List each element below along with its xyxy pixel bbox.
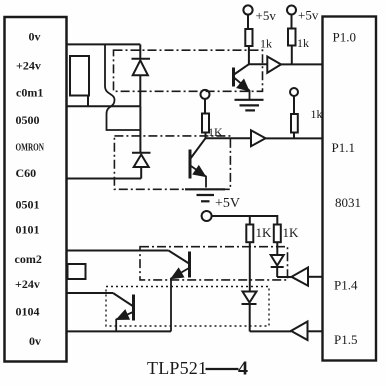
wire resistor to node and buffer 2 [206, 133, 252, 139]
wire circle 3 to resistor [204, 99, 206, 114]
optocoupler 1 dash-dot box [114, 50, 263, 91]
inverter U4 (P1.5) [291, 322, 308, 341]
svg-text:P1.0: P1.0 [333, 30, 356, 45]
svg-text:1K: 1K [256, 225, 273, 240]
transistor Q4 (opto 4 output) [113, 293, 134, 331]
wire circle 4 to resistor [293, 96, 295, 114]
resistor 1K (opto 2 collector pull-up) [202, 114, 209, 133]
diode C (opto 4 input LED) [242, 292, 257, 332]
svg-text:1K: 1K [283, 225, 300, 240]
resistor 1k (pull-up at P1.0 line) [288, 29, 296, 46]
wire resistor 2 down to P1.0 wire [291, 46, 293, 65]
wire from +5v circle 1 [247, 15, 249, 29]
svg-text:0501: 0501 [16, 198, 40, 212]
wire com2 row horizontal [66, 250, 169, 252]
wire inverter 1 to P1.4 [308, 276, 322, 278]
svg-text:OMRON: OMRON [16, 142, 45, 154]
wire resistor 4 down to P1.1 wire [293, 133, 295, 139]
wire diode C to inverter 2 [250, 330, 291, 332]
svg-text:1K: 1K [208, 125, 223, 139]
left terminal box (PLC) [5, 17, 67, 362]
svg-text:com2: com2 [15, 252, 42, 266]
wire squiggle crossover from 0v [105, 44, 140, 130]
svg-text:1k: 1k [297, 36, 309, 50]
svg-text:TLP521: TLP521 [147, 358, 207, 378]
svg-text:0101: 0101 [16, 223, 40, 237]
svg-text:+5v: +5v [298, 8, 319, 23]
+5v terminal circle 1 [243, 5, 252, 14]
wire diode D to inverter 1 [277, 276, 292, 278]
svg-text:0v: 0v [29, 30, 41, 44]
inverter U3 (P1.4) [292, 268, 309, 286]
transistor Q2 (opto 2 output) [190, 138, 206, 187]
svg-text:4: 4 [238, 358, 248, 380]
svg-text:P1.1: P1.1 [332, 140, 355, 155]
svg-text:0104: 0104 [16, 305, 40, 319]
wire +24v row horizontal [66, 292, 113, 294]
stub to resistor A [249, 216, 251, 225]
wire buffer 2 to P1.1 [266, 137, 323, 139]
wire buffer to P1.0 [281, 63, 322, 65]
svg-text:C60: C60 [16, 166, 37, 180]
+5v terminal circle 4 (P1.1 pull-up) [290, 88, 298, 96]
coil rectangle upper [70, 56, 89, 96]
buffer U2 to P1.1 [251, 130, 266, 146]
resistor 1k (pull-up P1.0 opto side) [245, 29, 252, 46]
wire node vertical between LED1 and LED2 [139, 106, 141, 153]
svg-text:1k: 1k [311, 107, 323, 121]
svg-text:+24v: +24v [16, 59, 41, 73]
svg-text:P1.4: P1.4 [334, 278, 358, 293]
svg-text:P1.5: P1.5 [334, 332, 357, 347]
wire 0v bottom row horizontal [66, 330, 171, 332]
resistor 1k (pull-up P1.1) [291, 114, 298, 133]
coil rectangle lower [68, 264, 86, 279]
svg-text:1k: 1k [260, 37, 272, 51]
wire resistor to collector node [249, 46, 267, 64]
svg-text:8031: 8031 [335, 195, 361, 210]
resistor 1K (A, P1.5 branch) [246, 225, 253, 243]
+5v terminal circle 5 [202, 211, 212, 221]
caption long dash [206, 368, 239, 370]
wire c0m1 row horizontal [66, 105, 141, 107]
wire +5V rail bottom [212, 216, 278, 225]
svg-text:+24v: +24v [15, 277, 40, 291]
diode LED1 (optocoupler 1 input) [132, 59, 151, 107]
svg-text:c0m1: c0m1 [16, 86, 43, 100]
optocoupler 2 dash-dot box [114, 136, 230, 189]
diode LED2 (optocoupler 2 input) [132, 153, 151, 179]
wire resistor A down to diode C [249, 242, 251, 291]
ground under Q1 [235, 100, 264, 111]
buffer U1 to P1.0 [267, 57, 281, 73]
transistor Q1 (opto 1 output) [234, 64, 250, 99]
svg-text:+5v: +5v [256, 8, 277, 23]
wire 0v row horizontal [66, 43, 140, 45]
svg-text:0v: 0v [29, 334, 41, 348]
ground under Q2 [185, 189, 225, 201]
diode D (opto 3 input LED) [271, 255, 284, 277]
+5v terminal circle 2 [287, 6, 296, 15]
wire inverter 2 to P1.5 [308, 330, 323, 332]
wire from +5v circle 2 [291, 15, 293, 29]
wire resistor B down to diode D [276, 242, 278, 255]
+5v terminal circle 3 (above R2) [201, 90, 210, 99]
svg-text:+5V: +5V [215, 196, 240, 211]
optocoupler 4 dotted box [106, 287, 269, 327]
wire C60 row horizontal [66, 178, 141, 180]
optocoupler 3 dash-dot box [140, 247, 288, 280]
transistor Q3 (opto 3 output) [169, 251, 190, 332]
resistor 1K (B, P1.4 branch) [274, 225, 281, 243]
svg-text:0500: 0500 [16, 113, 40, 127]
right box (8031 MCU) [323, 17, 377, 361]
stub coil to c0m1 wire [87, 96, 89, 107]
wire 0v drop to LED1 cathode [139, 44, 141, 58]
